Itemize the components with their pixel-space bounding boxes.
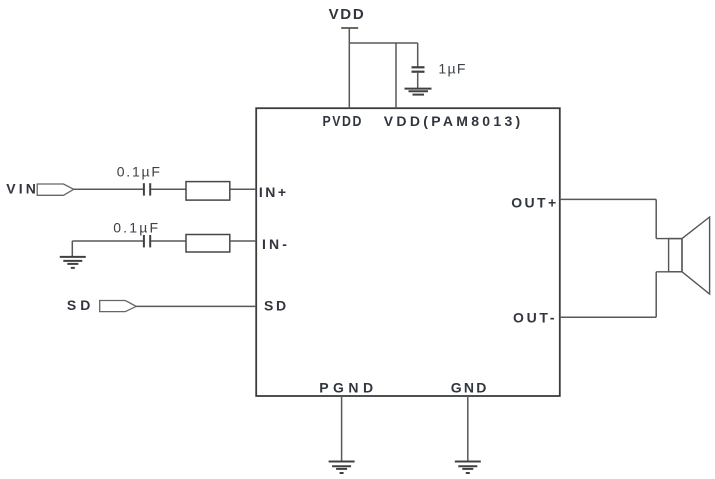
wire R2 to IN- pin	[230, 240, 256, 242]
wire C2 to R1	[151, 188, 186, 190]
svg-text:0.1µF: 0.1µF	[117, 164, 162, 180]
svg-text:VIN: VIN	[6, 181, 39, 197]
ground at GND	[455, 462, 481, 474]
svg-text:VDD: VDD	[329, 6, 366, 23]
speaker LS1 driver box	[669, 239, 682, 272]
svg-text:SD: SD	[67, 297, 94, 313]
wire OUT+ vertical to speaker	[655, 199, 657, 238]
svg-text:OUT+: OUT+	[511, 195, 558, 211]
wire OUT-	[560, 316, 656, 318]
connector flag SD	[100, 301, 137, 312]
svg-text:PGND: PGND	[319, 379, 377, 395]
capacitor C1 bottom lead	[417, 72, 419, 88]
svg-text:IN-: IN-	[262, 236, 290, 252]
wire VDD bar to PVDD pin	[348, 28, 350, 108]
capacitor C2 0.1uF plates	[143, 183, 145, 195]
wire gnd to C3	[72, 240, 143, 242]
wire GND pin down	[467, 396, 469, 461]
svg-text:SD: SD	[264, 297, 289, 313]
capacitor C1 plates	[412, 66, 425, 68]
ground under C1	[405, 89, 432, 95]
capacitor C3 0.1uF plates	[143, 235, 145, 247]
svg-text:VDD(PAM8013): VDD(PAM8013)	[384, 113, 524, 129]
VDD rail bar	[341, 27, 358, 29]
IC U1 PAM8013 body	[256, 108, 560, 396]
wire top horizontal VDD net	[349, 42, 417, 44]
wire speaker bottom stub	[656, 271, 682, 273]
ground at PGND	[329, 462, 355, 474]
resistor R2	[186, 235, 230, 253]
svg-text:IN+: IN+	[259, 184, 289, 200]
wire SD to SD pin	[136, 305, 256, 307]
capacitor C1 1uF top lead	[417, 43, 419, 67]
wire PGND pin down	[341, 396, 343, 461]
wire C3 to R2	[151, 240, 186, 242]
wire VIN to C2	[74, 188, 144, 190]
svg-text:0.1µF: 0.1µF	[113, 220, 160, 236]
svg-text:PVDD: PVDD	[323, 113, 363, 129]
wire VDD pin vertical	[395, 43, 397, 108]
svg-text:OUT-: OUT-	[513, 310, 557, 326]
wire speaker top stub	[656, 238, 682, 240]
connector flag VIN	[37, 184, 73, 195]
svg-text:GND: GND	[451, 379, 489, 395]
svg-text:1µF: 1µF	[438, 61, 466, 77]
resistor R1	[186, 182, 230, 201]
wire OUT- vertical from speaker	[655, 272, 657, 318]
wire OUT+	[560, 198, 656, 200]
speaker LS1 cone	[682, 217, 710, 294]
ground at row 2	[71, 241, 73, 257]
wire R1 to IN+ pin	[230, 188, 256, 190]
